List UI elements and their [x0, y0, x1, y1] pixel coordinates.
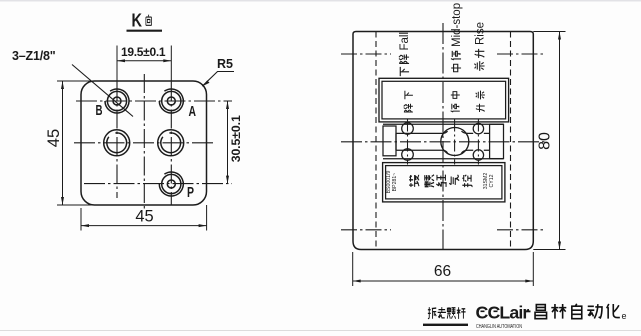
- port B outer thread arc: [105, 89, 129, 113]
- port P outer thread arc: [159, 172, 183, 196]
- mid-right hole thread arc: [161, 133, 181, 153]
- position centerline mid: [454, 120, 456, 165]
- spool housing bottom line: [383, 158, 504, 160]
- svg-text:30.5±0.1: 30.5±0.1: [229, 115, 243, 162]
- svg-text:e: e: [622, 311, 627, 321]
- svg-text:Fall: Fall: [399, 32, 411, 51]
- svg-text:CY12: CY12: [489, 174, 495, 187]
- direction text mid-stop: [451, 3, 463, 72]
- spool left end block: [383, 126, 396, 156]
- spool right end block: [490, 124, 504, 158]
- view title underline: [127, 30, 163, 32]
- footer note underline bar: [423, 324, 468, 326]
- logo chang-lin-zi-dong-hua glyphs: [535, 305, 547, 319]
- logo CCLair: [476, 303, 531, 323]
- svg-text:K: K: [132, 10, 143, 31]
- centerline horizontal middle row: [74, 142, 216, 144]
- mount mark bottom-right: [497, 229, 545, 231]
- view title xiang glyph: [146, 15, 152, 26]
- spool housing top line: [383, 123, 504, 125]
- dimension 19.5±0.1: [117, 45, 171, 62]
- dimension 45 left: [45, 81, 96, 205]
- nameplate tiny left code: [386, 170, 398, 193]
- view title K: [132, 10, 143, 31]
- detent bump bottom right: [473, 150, 483, 160]
- svg-text:A: A: [189, 104, 197, 120]
- svg-text:R5: R5: [217, 57, 233, 71]
- label text ju-sheng: [476, 91, 485, 100]
- detent bump top right: [473, 123, 483, 133]
- position centerline fall: [407, 120, 409, 165]
- spool center lobe circle: [441, 128, 469, 156]
- mount mark top-left: [341, 53, 391, 55]
- centerline vertical middle of valve: [442, 23, 444, 250]
- mount mark bottom-left: [341, 229, 391, 231]
- hidden line right mounting: [510, 32, 512, 250]
- svg-text:45: 45: [45, 129, 63, 147]
- valve body outline: [353, 32, 533, 250]
- port A circles: [162, 91, 181, 110]
- port label P: [187, 185, 194, 201]
- nameplate glyph gang: [449, 175, 459, 185]
- svg-text:3–Z1/8": 3–Z1/8": [12, 49, 56, 63]
- centerline vertical plate middle: [143, 74, 145, 209]
- svg-text:BP281~: BP281~: [392, 173, 398, 192]
- nameplate glyph kong: [462, 175, 472, 187]
- port B circles: [107, 91, 126, 110]
- svg-text:Rise: Rise: [475, 22, 487, 45]
- dimension 45 bottom: [81, 205, 207, 231]
- port P circles: [162, 174, 181, 193]
- nameplate glyph zhuang: [436, 175, 446, 187]
- centerline horizontal spool axis: [341, 141, 545, 143]
- nameplate glyph fa: [409, 175, 419, 187]
- detent ball bottom: [402, 149, 414, 161]
- svg-text:P: P: [187, 185, 194, 201]
- direction text rise: [474, 22, 486, 71]
- svg-text:19.5±0.1: 19.5±0.1: [121, 45, 166, 59]
- label plate top box: [379, 78, 509, 122]
- centerline horizontal P row: [84, 183, 232, 185]
- position centerline rise: [477, 120, 479, 165]
- detent ball top: [402, 123, 414, 135]
- plate outline: [81, 81, 207, 205]
- nameplate glyph zhi: [424, 175, 434, 187]
- logo trailing e: [622, 311, 627, 321]
- nameplate tiny right code: [483, 173, 495, 190]
- mount mark top-right: [497, 53, 545, 55]
- svg-text:CHANGLIN AUTOMATION: CHANGLIN AUTOMATION: [476, 324, 522, 330]
- direction text fall: [399, 32, 411, 76]
- centerline vertical column B: [116, 46, 118, 83]
- dimension R5 leader: [202, 57, 234, 86]
- svg-text:Mid-stop: Mid-stop: [451, 3, 463, 47]
- svg-text:B: B: [96, 103, 103, 119]
- dimension 80: [533, 32, 565, 250]
- mid-left hole outer: [104, 130, 130, 156]
- svg-text:CCLair: CCLair: [476, 303, 530, 323]
- centerline horizontal top row: [76, 100, 232, 102]
- port A outer thread arc: [159, 89, 183, 113]
- svg-text:45: 45: [135, 208, 153, 226]
- spool right stem: [484, 133, 490, 150]
- svg-text:66: 66: [434, 263, 451, 280]
- port label A: [189, 104, 197, 120]
- mid-left hole thread arc: [107, 133, 127, 153]
- logo tiny tagline: [476, 324, 522, 330]
- label text zhong-ting: [451, 92, 460, 99]
- dimension 30.5±0.1: [226, 101, 243, 184]
- leader 3-Z1/8: [12, 49, 133, 117]
- spool lobe blend: [442, 131, 473, 153]
- mid-right hole outer: [158, 130, 184, 156]
- svg-text:80: 80: [537, 132, 554, 150]
- label text xia-jiang: [405, 91, 413, 99]
- nameplate bottom box: [383, 163, 505, 202]
- hidden line left mounting: [375, 32, 377, 250]
- dimension 66: [353, 252, 534, 286]
- port label B: [96, 103, 103, 119]
- spool shaft: [396, 133, 442, 150]
- footer note chai-qu-luo-gan glyphs: [428, 307, 436, 319]
- centerline vertical column A/P: [170, 46, 172, 83]
